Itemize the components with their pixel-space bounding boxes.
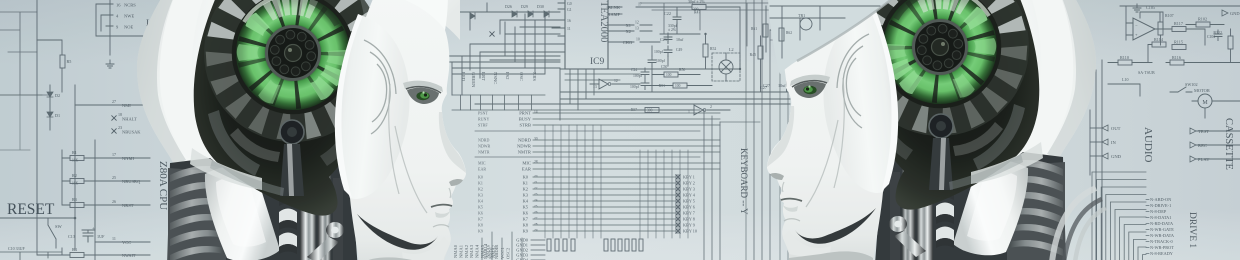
resistor R57 300	[645, 108, 659, 113]
throat tubes	[300, 168, 316, 260]
resistor array RP1	[547, 239, 551, 251]
resistor R2 10K	[62, 158, 150, 181]
arrow OUT	[1102, 125, 1108, 131]
spine column	[929, 138, 953, 190]
resistor R115	[1172, 45, 1186, 50]
resistor R47 300	[652, 7, 740, 69]
diode D27	[470, 13, 475, 19]
nostril shade	[770, 173, 784, 180]
nose side shade	[767, 106, 794, 167]
resistor R114	[1152, 42, 1166, 47]
robot skull shell	[933, 0, 1096, 184]
chin crease	[784, 219, 800, 221]
transistor TR1	[781, 24, 794, 37]
cavity chrome streaks	[208, 110, 260, 176]
neck knob column	[279, 185, 297, 200]
eye lid line	[792, 81, 827, 87]
wire left bus	[0, 0, 110, 260]
green turbine ring	[883, 0, 997, 104]
ear shell	[823, 10, 895, 193]
resistor R3	[62, 181, 150, 230]
neck coil ribs	[168, 168, 226, 260]
turbine highlights	[961, 5, 989, 32]
neck rod	[894, 231, 926, 257]
neck coil ribs	[1007, 162, 1065, 260]
spoke ring	[865, 0, 1015, 122]
resistor R122	[1228, 36, 1233, 49]
ground top right	[1133, 4, 1141, 12]
inverter IC10a	[590, 83, 640, 85]
shell edge shade	[137, 0, 186, 165]
wire slivers right mid	[746, 0, 800, 260]
resistor R102 top corner	[1196, 22, 1210, 27]
cheek seam	[389, 84, 427, 213]
resistor R4 bottom	[37, 218, 150, 255]
op-amp IC101	[1133, 18, 1155, 40]
wire wedge rails	[766, 6, 880, 58]
diode D2	[49, 85, 51, 130]
resistor R46 vertical	[784, 46, 789, 59]
shoulder plate white	[205, 166, 280, 260]
arrow GND top right	[1222, 10, 1228, 16]
pin CHG 10	[608, 41, 660, 43]
pin 18 NHALT	[112, 116, 116, 120]
eye green	[416, 92, 429, 100]
spoke ring	[218, 0, 368, 128]
spine column	[280, 144, 304, 196]
arrow REC	[1190, 142, 1196, 148]
shoulder plate white	[953, 160, 1028, 255]
resistor R5 top left	[60, 55, 65, 68]
robot right	[767, 0, 1096, 260]
transistor TR1 right	[800, 18, 812, 30]
capacitor C22 330pf	[676, 7, 678, 15]
brow	[790, 75, 830, 86]
ground symbol top left	[106, 60, 114, 68]
turbine blades	[930, 0, 939, 21]
chin crease	[433, 225, 449, 227]
robot skull shell	[137, 0, 300, 190]
green turbine ring	[236, 0, 350, 110]
chrome slats under cavity	[949, 154, 1023, 190]
pin RAMP	[608, 13, 622, 15]
pin X1 12	[608, 24, 652, 26]
inverter IC10b	[680, 109, 730, 111]
resistor R50 100	[664, 72, 678, 77]
ear rim highlight	[870, 8, 898, 192]
resistor R1 10K	[62, 150, 150, 158]
wire bottom mid verticals	[482, 232, 522, 260]
resistor R62	[779, 28, 784, 41]
resistor array RP2	[604, 239, 608, 251]
brain cavity	[864, 0, 1039, 210]
capacitor C23 10uf	[667, 36, 669, 42]
diode D29	[528, 11, 533, 17]
pin 11 VCC	[95, 241, 150, 243]
under-chin shadow	[789, 251, 873, 260]
net KBY 10	[676, 229, 680, 233]
neck chrome base	[875, 152, 1066, 260]
under-chin shadow	[360, 257, 444, 260]
net KBY 7	[676, 211, 680, 215]
right neck arc rings	[1052, 188, 1096, 260]
jaw shell	[402, 236, 450, 260]
capacitor C24 100pf	[641, 68, 649, 79]
switch SW	[48, 218, 56, 248]
wire keyboard bus verticals	[545, 125, 688, 238]
wire slivers left of head	[0, 95, 42, 150]
eye socket	[407, 88, 439, 104]
right dome wedge background	[768, 0, 893, 74]
wire extra top-left	[0, 12, 50, 95]
wire mid drop grid	[470, 34, 560, 78]
rim chrome arc	[957, 0, 989, 16]
ear shell	[338, 16, 410, 199]
chrome slats under cavity	[210, 160, 284, 196]
robot left	[137, 0, 466, 260]
net KBY 1	[676, 175, 680, 179]
resistor R117	[1172, 27, 1186, 32]
junction dots mid	[739, 68, 741, 70]
capacitor C26 100pf	[641, 79, 649, 90]
pin 23 NBUSAK	[112, 129, 116, 133]
brain cavity	[194, 0, 369, 216]
wire right bus verticals	[704, 0, 770, 260]
resistor R52	[703, 44, 708, 57]
net KBY 6	[676, 205, 680, 209]
pin BLNK 17	[608, 6, 652, 8]
neck ball joint	[326, 222, 344, 238]
forehead sheen	[785, 0, 857, 24]
diode D30	[544, 11, 549, 17]
brow	[403, 81, 443, 92]
wire IC9 left pins	[552, 3, 565, 52]
eye lid line	[406, 87, 441, 93]
diode D1	[47, 112, 53, 117]
dome top	[773, 0, 933, 34]
lower lip	[435, 211, 450, 218]
arrow PLAY	[1190, 156, 1196, 162]
net KBY 9	[676, 223, 680, 227]
under-jaw gap	[795, 208, 876, 244]
jaw shell	[783, 230, 831, 260]
resistor R45 vertical	[758, 46, 763, 59]
nostril shade	[449, 179, 463, 186]
net KBY 4	[676, 193, 680, 197]
iris center	[914, 21, 966, 73]
neck rod	[307, 237, 339, 260]
under-jaw gap	[357, 214, 438, 250]
wire top mesh right	[640, 3, 790, 46]
mouth line	[781, 199, 802, 201]
mouth line	[431, 205, 452, 207]
resistor R110	[1118, 60, 1132, 65]
shell edge shade	[1047, 0, 1096, 159]
wire under IC9	[565, 69, 640, 110]
wire dense cluster left of IC9	[440, 14, 560, 95]
spine rosette	[280, 120, 304, 144]
capacitor C10 bottom left	[0, 252, 62, 260]
wire mid horizontals	[475, 69, 790, 120]
cavity chrome streaks	[973, 104, 1025, 170]
throat tubes	[917, 162, 933, 260]
net KBY 3	[676, 187, 680, 191]
wedge seam shade	[797, 0, 893, 61]
neck ball joint	[889, 216, 907, 232]
ear seams	[364, 40, 396, 134]
net KBY 5	[676, 199, 680, 203]
dome top	[300, 0, 460, 40]
arrow IN	[1102, 139, 1108, 145]
wire NMI row	[75, 104, 150, 106]
shell bottom wedge	[971, 142, 1043, 184]
eye green	[803, 86, 816, 94]
ear seams	[837, 34, 869, 128]
turbine blades	[294, 0, 303, 27]
arrow TEST	[1190, 128, 1196, 134]
X no-connect	[490, 32, 494, 36]
net KBY 2	[676, 181, 680, 185]
diode D26	[512, 11, 517, 17]
cheek seam	[806, 78, 844, 207]
forehead sheen	[376, 0, 448, 30]
resistor R116	[1170, 60, 1184, 65]
arrow GND	[1102, 153, 1108, 159]
iris center	[267, 27, 319, 79]
net KBY 8	[676, 217, 680, 221]
face	[346, 0, 466, 260]
capacitor C102	[1214, 30, 1222, 41]
philtrum	[449, 188, 451, 198]
IC9 TEA2000	[565, 0, 608, 69]
capacitor C49 100pf	[664, 46, 672, 57]
wire right edge rails	[1090, 60, 1102, 260]
resistor R107	[1158, 22, 1163, 35]
spine rosette	[929, 114, 953, 138]
rim chrome arc	[244, 0, 276, 22]
shell bottom wedge	[190, 148, 262, 190]
neck knob column	[936, 179, 954, 194]
eye socket	[794, 82, 826, 98]
wire R5 drop	[37, 40, 62, 92]
inductor L2 dashed	[712, 53, 740, 81]
wire hbar under signals	[452, 95, 700, 110]
comb nested wires	[1092, 172, 1146, 260]
wire mid extra caps	[648, 56, 656, 67]
node junction A	[74, 217, 77, 220]
resistor R51 100	[673, 83, 687, 88]
nose side shade	[439, 112, 466, 173]
ear rim highlight	[335, 14, 363, 198]
philtrum	[782, 182, 784, 192]
neck chrome base	[167, 158, 358, 260]
lower lip	[783, 205, 798, 212]
capacitor C13 1UF	[82, 230, 95, 233]
face	[767, 0, 887, 260]
pin X2 13	[608, 30, 652, 32]
resistor R61	[763, 24, 768, 37]
wire nested bracket NCRS	[96, 4, 150, 36]
turbine highlights	[244, 11, 272, 38]
wire top middle rails	[455, 3, 560, 34]
